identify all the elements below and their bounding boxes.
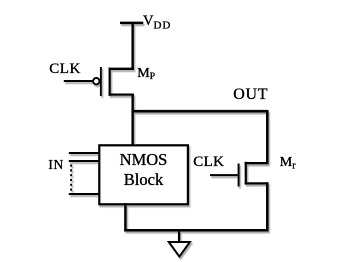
- label NMOS Block: [99, 150, 188, 190]
- wire block bottom to ground rail: [124, 203, 127, 231]
- input line INn: [69, 193, 100, 195]
- wire OUT down to Mr drain: [266, 110, 269, 164]
- label IN: [48, 157, 63, 173]
- input line IN2: [69, 160, 100, 162]
- power rail VDD bar: [120, 22, 143, 25]
- input line IN1: [69, 152, 100, 154]
- transistor Mp source arm: [109, 68, 134, 70]
- transistor Mr source arm: [245, 182, 269, 184]
- label OUT: [233, 86, 268, 104]
- transistor Mp channel bar: [109, 68, 111, 96]
- label Mp: [137, 66, 155, 82]
- wire CLK to Mp gate: [64, 80, 93, 82]
- label CLK (Mr gate): [193, 154, 224, 171]
- transistor Mr channel bar: [245, 162, 247, 185]
- wire OUT horizontal: [132, 110, 268, 113]
- wire ground rail: [124, 229, 268, 232]
- wire Mp drain down to NMOS block / OUT node: [131, 94, 134, 147]
- transistor Mp drain arm: [109, 93, 134, 95]
- wire CLK to Mr gate: [210, 174, 238, 176]
- NMOS Block box: [99, 145, 188, 204]
- input ellipsis dotted line: [70, 165, 72, 192]
- transistor Mp gate bubble: [93, 78, 99, 84]
- label VDD: [143, 13, 171, 31]
- transistor Q Mp (PMOS) gate bar: [100, 67, 102, 96]
- transistor Mr (NMOS) gate bar: [238, 164, 240, 187]
- ground triangle: [169, 242, 190, 257]
- wire VDD to Mp source: [131, 22, 134, 70]
- label CLK (Mp gate): [49, 61, 81, 78]
- wire Mr source down to rail: [266, 182, 269, 231]
- transistor Mr drain arm: [245, 162, 269, 164]
- label Mr: [280, 155, 296, 172]
- ground stem: [178, 229, 180, 242]
